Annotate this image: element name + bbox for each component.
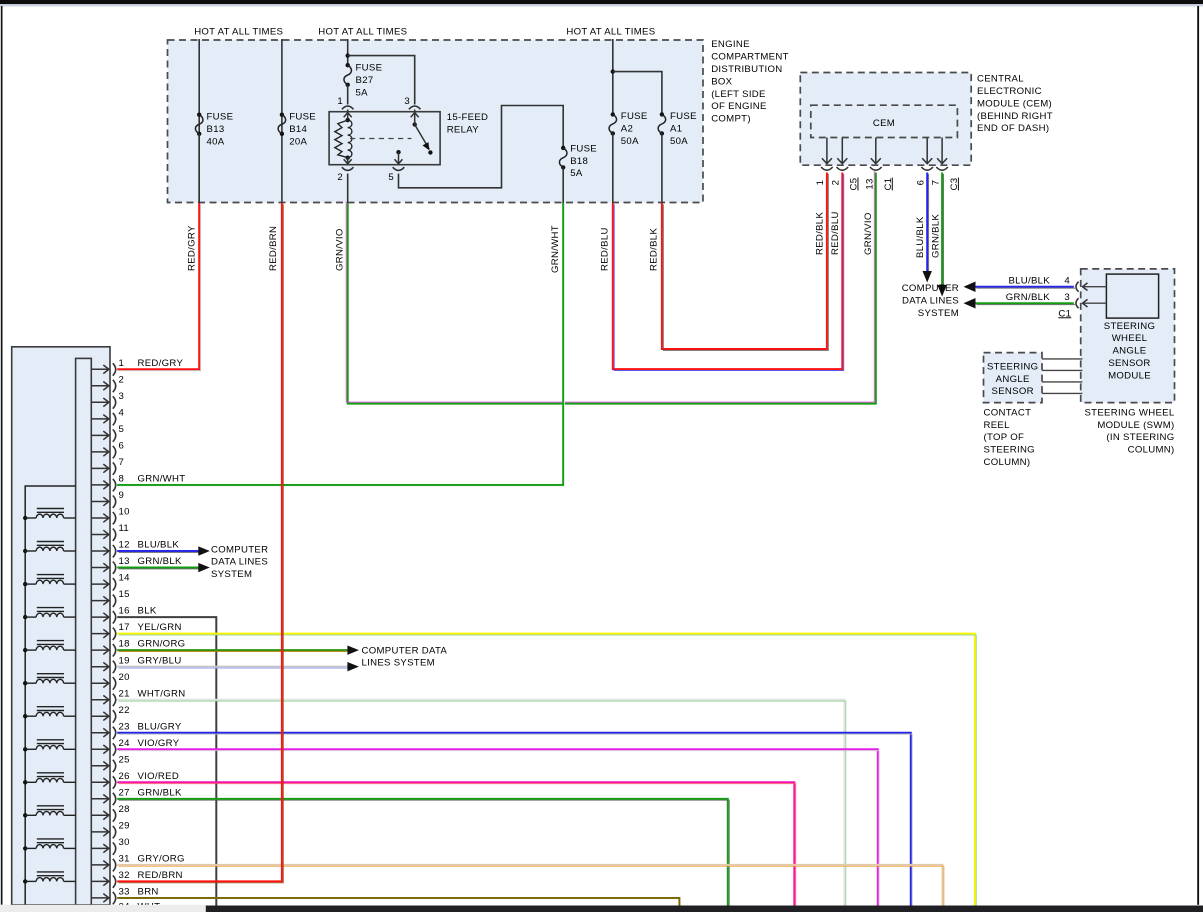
fuse A2 [611, 112, 615, 116]
wire BLU/GRY pin 23 [117, 733, 912, 908]
engine compartment distribution box caption [711, 39, 789, 124]
svg-text:15-FEED: 15-FEED [447, 112, 489, 123]
page top dither strip [0, 4, 1203, 6]
page right border [1197, 6, 1199, 905]
left connector pin 5 lead [91, 434, 109, 436]
suppression coil at pin 14 [23, 575, 76, 587]
left connector pin 22 lead [91, 715, 109, 717]
svg-text:GRN/BLK: GRN/BLK [138, 787, 183, 798]
fuse B27 label [356, 63, 383, 99]
svg-text:29: 29 [119, 821, 130, 832]
fuse B13 [197, 113, 201, 117]
svg-text:COLUMN): COLUMN) [1128, 445, 1175, 456]
svg-text:B14: B14 [289, 124, 307, 135]
SWM pin 4 connector [1076, 282, 1079, 292]
svg-text:(BEHIND RIGHT: (BEHIND RIGHT [977, 111, 1053, 122]
svg-text:FUSE: FUSE [570, 143, 597, 154]
wire GRN/BLK SWM pin 3 to data lines arrow [975, 303, 1075, 304]
svg-text:STEERING: STEERING [984, 445, 1035, 456]
relay pin 2 connector [342, 167, 354, 170]
CEM pin lead x=842.3 [841, 138, 843, 164]
svg-text:CONTACT: CONTACT [984, 407, 1032, 418]
svg-text:ANGLE: ANGLE [996, 374, 1030, 385]
wire BLU/BLK SWM pin 4 to data lines arrow [975, 287, 1075, 288]
left connector pin 31 lead [91, 864, 109, 866]
left connector pin 22 connector [113, 710, 116, 722]
wire VIO/RED pin 26 [117, 782, 796, 907]
svg-text:RED/GRY: RED/GRY [187, 225, 198, 271]
svg-text:GRN/VIO: GRN/VIO [863, 212, 874, 255]
svg-text:7: 7 [931, 180, 942, 186]
left connector pin 13 connector [113, 562, 116, 574]
svg-text:21: 21 [119, 688, 130, 699]
svg-text:COMPARTMENT: COMPARTMENT [711, 52, 789, 63]
svg-text:18: 18 [119, 639, 130, 650]
svg-text:17: 17 [119, 622, 130, 633]
svg-text:27: 27 [119, 787, 130, 798]
CEM pin connector x=842.3 [837, 167, 849, 170]
CEM pin connector x=927.2 [921, 167, 933, 170]
CEM pin connector x=942.1 [936, 167, 948, 170]
svg-text:6: 6 [915, 180, 926, 186]
left connector pin 18 connector [113, 644, 116, 656]
svg-text:11: 11 [119, 523, 130, 534]
suppression coil at pin 26 [23, 773, 76, 785]
suppression coil at pin 16 [23, 608, 76, 620]
svg-text:FUSE: FUSE [621, 111, 648, 122]
svg-text:DATA LINES: DATA LINES [902, 295, 959, 306]
svg-text:STEERING WHEEL: STEERING WHEEL [1084, 407, 1174, 418]
suppression coil at pin 12 [23, 542, 76, 554]
svg-text:30: 30 [119, 837, 130, 848]
fuse A1 [660, 112, 664, 116]
left connector pin 16 connector [113, 611, 116, 623]
left connector pin 17 connector [113, 628, 116, 640]
relay switch common node [413, 122, 417, 126]
svg-text:SENSOR: SENSOR [1108, 358, 1150, 369]
relay actuator dashed link [350, 138, 412, 140]
svg-text:2: 2 [830, 180, 841, 186]
svg-text:CEM: CEM [873, 118, 895, 129]
svg-text:SYSTEM: SYSTEM [918, 308, 959, 319]
svg-text:RED/BRN: RED/BRN [138, 870, 183, 881]
node label COMPUTER DATA LINES SYSTEM (pins 18/19) [362, 645, 448, 668]
wire GRN/VIO relay pin 2 to CEM pin 13 [346, 171, 876, 404]
svg-text:DATA LINES: DATA LINES [211, 557, 268, 568]
left connector pin 32 connector [113, 875, 116, 887]
suppression coil at pin 24 [23, 740, 76, 752]
svg-text:4: 4 [1064, 276, 1070, 287]
svg-text:COLUMN): COLUMN) [984, 457, 1031, 468]
left connector pin 10 connector [113, 512, 116, 524]
relay coil bottom node [346, 156, 350, 160]
wire GRN/BLK pin 27 [117, 799, 729, 908]
left connector pin 28 connector [113, 809, 116, 821]
svg-text:GRN/BLK: GRN/BLK [930, 213, 941, 258]
CEM inner box [811, 105, 958, 137]
left connector pin 25 connector [113, 760, 116, 772]
svg-text:RED/BLK: RED/BLK [814, 212, 825, 255]
wire GRN/WHT pin 8 to fuse B18 [117, 203, 564, 486]
svg-text:COMPUTER DATA: COMPUTER DATA [362, 645, 448, 656]
svg-text:RED/GRY: RED/GRY [138, 358, 184, 369]
svg-text:2: 2 [337, 172, 343, 183]
svg-text:MODULE (SWM): MODULE (SWM) [1097, 420, 1174, 431]
svg-text:B27: B27 [356, 75, 374, 86]
svg-text:LINES SYSTEM: LINES SYSTEM [362, 658, 435, 669]
svg-text:5A: 5A [570, 168, 583, 179]
left connector pin 25 lead [91, 765, 109, 767]
left connector pin 33 lead [91, 897, 109, 899]
wire GRY/BLU pin 19 to data lines arrow [117, 667, 349, 668]
svg-text:REEL: REEL [984, 420, 1011, 431]
svg-text:COMPUTER: COMPUTER [211, 544, 268, 555]
wire branch to relay pin 3 [348, 56, 415, 105]
left connector pin 30 lead [91, 847, 109, 849]
wire steering angle sensor line 4 [1042, 392, 1082, 394]
svg-text:14: 14 [119, 573, 131, 584]
svg-text:GRY/ORG: GRY/ORG [138, 854, 185, 865]
left connector pin 1 connector [113, 363, 116, 375]
fuse A2 label [621, 111, 648, 147]
left connector pin 15 connector [113, 595, 116, 607]
CEM pin lead x=875.8 [875, 138, 877, 164]
svg-text:BLU/BLK: BLU/BLK [1008, 276, 1050, 287]
steering wheel angle sensor module inner box [1106, 274, 1158, 318]
svg-text:3: 3 [119, 391, 125, 402]
svg-text:SYSTEM: SYSTEM [211, 569, 252, 580]
left connector outer box [12, 347, 110, 905]
SWM pin 3 connector [1076, 298, 1079, 308]
svg-text:1: 1 [337, 96, 343, 107]
wire hot feed to fuse B13 [198, 39, 200, 203]
steering wheel module (SWM) outer box [1081, 269, 1175, 403]
svg-text:26: 26 [119, 771, 130, 782]
svg-text:RED/BRN: RED/BRN [268, 226, 279, 271]
left connector pin 29 connector [113, 826, 116, 838]
svg-text:31: 31 [119, 854, 130, 865]
relay coil winding (bumps) [348, 120, 352, 158]
fuse B14 label [289, 112, 316, 148]
svg-text:28: 28 [119, 804, 130, 815]
wire hot feed to fuse A2 [612, 39, 614, 114]
svg-text:GRY/BLU: GRY/BLU [138, 655, 182, 666]
svg-text:C1: C1 [883, 178, 894, 191]
suppression coil at pin 32 [23, 872, 76, 884]
wire BLU/BLK CEM pin 6 to data lines arrow [927, 173, 928, 273]
CEM pin connector x=875.8 [870, 167, 882, 170]
left connector pin 11 lead [91, 534, 109, 536]
svg-text:BOX: BOX [711, 76, 732, 87]
relay coil top node [346, 118, 350, 122]
steering angle sensor box [984, 353, 1043, 403]
left connector pin 20 connector [113, 677, 116, 689]
svg-text:20A: 20A [289, 136, 307, 147]
steering wheel angle sensor module label [1104, 321, 1155, 382]
fuse B18 label [570, 143, 597, 179]
svg-text:FUSE: FUSE [356, 63, 383, 74]
svg-text:YEL/GRN: YEL/GRN [138, 622, 182, 633]
left connector pin 28 lead [91, 814, 109, 816]
left connector pin 2 lead [91, 385, 109, 387]
wire BLU/BLK pin 12 to data lines arrow [117, 551, 200, 552]
left connector pin 23 connector [113, 727, 116, 739]
svg-text:BLK: BLK [138, 606, 157, 617]
svg-text:DISTRIBUTION: DISTRIBUTION [711, 64, 782, 75]
svg-text:12: 12 [119, 540, 130, 551]
svg-text:ANGLE: ANGLE [1112, 346, 1146, 357]
left connector pin 12 connector [113, 545, 116, 557]
svg-text:VIO/GRY: VIO/GRY [138, 738, 180, 749]
wire relay pin 2 to box edge [347, 174, 349, 203]
SWM pin 3 lead [1083, 302, 1106, 304]
left connector internal bus [25, 486, 75, 905]
svg-text:GRN/ORG: GRN/ORG [138, 639, 186, 650]
svg-text:HOT AT ALL TIMES: HOT AT ALL TIMES [194, 26, 283, 37]
svg-text:9: 9 [119, 490, 125, 501]
svg-text:13: 13 [119, 556, 130, 567]
page left border [1, 6, 3, 905]
fuse B13 label [207, 112, 234, 148]
bottom black bar [206, 906, 1203, 912]
wire VIO/GRY pin 24 [117, 749, 879, 907]
svg-text:HOT AT ALL TIMES: HOT AT ALL TIMES [566, 26, 655, 37]
left connector pin 9 connector [113, 496, 116, 508]
svg-text:BLU/GRY: BLU/GRY [138, 721, 182, 732]
left connector pin 4 lead [91, 418, 109, 420]
wire hot feed to fuse B14 [281, 39, 283, 203]
engine compartment distribution box [168, 40, 704, 203]
wire hot feed to fuse B27 / relay [347, 39, 349, 65]
wire relay pin 5 to fuse B18 [399, 106, 564, 188]
svg-text:3: 3 [404, 96, 410, 107]
svg-text:FUSE: FUSE [289, 112, 316, 123]
svg-text:20: 20 [119, 672, 130, 683]
svg-text:50A: 50A [670, 136, 688, 147]
left connector pin 18 lead [91, 649, 109, 651]
svg-text:C5: C5 [849, 178, 860, 191]
svg-text:7: 7 [119, 457, 125, 468]
left connector pin 14 lead [91, 583, 109, 585]
svg-text:HOT AT ALL TIMES: HOT AT ALL TIMES [318, 26, 407, 37]
left connector pin 20 lead [91, 682, 109, 684]
svg-text:WHT/GRN: WHT/GRN [138, 688, 186, 699]
left connector pin 24 connector [113, 743, 116, 755]
central electronic module outer box [800, 73, 971, 166]
left connector pin 29 lead [91, 831, 109, 833]
svg-text:A1: A1 [670, 124, 682, 135]
relay pin 1 connector [342, 106, 354, 109]
svg-text:GRN/BLK: GRN/BLK [138, 556, 183, 567]
arrow GRN/ORG pin 18 to computer data lines system [347, 645, 359, 654]
wire BLK pin 16 [117, 617, 216, 906]
wire RED/BLK fuse A1 to CEM pin 1 [662, 173, 828, 351]
fuse A1 label [670, 111, 697, 147]
svg-text:2: 2 [119, 374, 125, 385]
left connector pin 16 lead [91, 616, 109, 618]
svg-text:SENSOR: SENSOR [992, 386, 1034, 397]
svg-text:(IN STEERING: (IN STEERING [1106, 432, 1174, 443]
left connector pin 30 connector [113, 842, 116, 854]
svg-text:33: 33 [119, 887, 130, 898]
arrow GRY/BLU pin 19 to computer data lines system [347, 662, 359, 671]
wire GRN/BLK CEM pin 7 to data lines arrow [942, 173, 943, 287]
left connector pin 3 connector [113, 396, 116, 408]
wire steering angle sensor line 3 [1042, 381, 1082, 383]
left connector pin 21 lead [91, 699, 109, 701]
wire fuse B27 to relay pin 1 [347, 85, 349, 105]
svg-text:4: 4 [119, 408, 125, 419]
svg-text:RED/BLU: RED/BLU [830, 211, 841, 255]
junction above fuse A2 [611, 69, 615, 73]
wire BRN pin 33 [117, 898, 679, 906]
svg-text:B13: B13 [207, 124, 225, 135]
left connector pin 1 lead [91, 368, 109, 370]
left connector pin 19 lead [91, 666, 109, 668]
left connector pin 9 lead [91, 501, 109, 503]
svg-text:GRN/WHT: GRN/WHT [550, 225, 561, 273]
arrow BLU/BLK pin 12 to computer data lines system [198, 546, 210, 555]
svg-text:24: 24 [119, 738, 131, 749]
wire RED/BLU fuse A2 to CEM pin 2 [613, 173, 844, 371]
svg-text:32: 32 [119, 870, 130, 881]
left connector pin 5 connector [113, 429, 116, 441]
relay switch contact node [428, 150, 432, 154]
relay coil resistive element (zigzag) [335, 120, 348, 158]
svg-text:5: 5 [388, 172, 394, 183]
relay pin 2 lead [347, 158, 349, 164]
left connector pin 33 connector [113, 892, 116, 904]
wire YEL/GRN pin 17 [117, 634, 976, 908]
node label COMPUTER DATA LINES SYSTEM (right) [902, 283, 959, 319]
svg-text:STEERING: STEERING [987, 361, 1038, 372]
svg-text:OF ENGINE: OF ENGINE [711, 101, 766, 112]
relay pin 3 connector [409, 106, 421, 109]
left connector pin 13 lead [91, 567, 109, 569]
svg-text:22: 22 [119, 705, 130, 716]
arrow BLU/BLK to computer data lines system [923, 271, 932, 283]
left connector pin 8 lead [91, 484, 109, 486]
svg-text:CENTRAL: CENTRAL [977, 74, 1024, 85]
left connector pin 11 connector [113, 529, 116, 541]
svg-text:BLU/BLK: BLU/BLK [915, 216, 926, 258]
svg-text:(TOP OF: (TOP OF [984, 432, 1025, 443]
CEM caption [977, 74, 1053, 135]
fuse B27 [346, 63, 350, 67]
left connector pin 17 lead [91, 633, 109, 635]
svg-text:10: 10 [119, 507, 130, 518]
wire fuse B13 to box edge [198, 134, 200, 203]
svg-text:BLU/BLK: BLU/BLK [138, 540, 180, 551]
left connector pin 7 connector [113, 462, 116, 474]
CEM pin lead x=826.9 [826, 138, 828, 164]
steering wheel module caption [1084, 407, 1174, 455]
svg-text:1: 1 [119, 358, 125, 369]
wire WHT/GRN pin 21 [117, 700, 846, 908]
left connector pin 4 connector [113, 413, 116, 425]
relay switch arm [415, 125, 430, 150]
left connector pin 15 lead [91, 600, 109, 602]
SWM pin 4 lead [1083, 286, 1106, 288]
svg-text:23: 23 [119, 721, 130, 732]
svg-text:19: 19 [119, 655, 130, 666]
svg-text:A2: A2 [621, 124, 633, 135]
left connector pin 8 connector [113, 479, 116, 491]
suppression coil at pin 22 [23, 707, 76, 719]
node label COMPUTER DATA LINES SYSTEM (pins 12/13) [211, 544, 268, 580]
steering angle sensor label [987, 361, 1038, 397]
fuse B14 [280, 113, 284, 117]
left connector pin 19 connector [113, 661, 116, 673]
wire GRN/BLK pin 13 to data lines arrow [117, 568, 200, 569]
arrow BLU/BLK (left) to computer data lines system [964, 282, 976, 293]
bottom-left gray strip [0, 905, 206, 912]
relay pin 1 lead [347, 110, 349, 121]
svg-text:6: 6 [119, 441, 125, 452]
svg-text:15: 15 [119, 589, 130, 600]
suppression coil at pin 18 [23, 641, 76, 653]
svg-text:1: 1 [815, 180, 826, 186]
wire fuse A1 to box edge [661, 134, 663, 204]
svg-text:END OF DASH): END OF DASH) [977, 123, 1049, 134]
wire RED/BRN pin 32 to fuse B14 [117, 203, 283, 883]
left connector pin 6 connector [113, 446, 116, 458]
svg-text:MODULE (CEM): MODULE (CEM) [977, 98, 1052, 109]
svg-text:MODULE: MODULE [1108, 370, 1151, 381]
relay 15-FEED box [329, 112, 440, 165]
relay pin 5 node [396, 150, 400, 154]
svg-text:FUSE: FUSE [207, 112, 234, 123]
svg-text:FUSE: FUSE [670, 111, 697, 122]
left connector pin 7 lead [91, 467, 109, 469]
svg-text:GRN/VIO: GRN/VIO [334, 228, 345, 271]
svg-text:3: 3 [1064, 292, 1070, 303]
svg-text:B18: B18 [570, 156, 588, 167]
svg-text:RELAY: RELAY [447, 124, 480, 135]
wire RED/GRY pin 1 to fuse B13 [117, 203, 200, 371]
suppression coil at pin 30 [23, 839, 76, 851]
left connector pin 27 connector [113, 793, 116, 805]
relay pin 5 lead [398, 152, 400, 164]
svg-text:8: 8 [119, 474, 125, 485]
svg-text:C3: C3 [949, 178, 960, 191]
svg-text:16: 16 [119, 606, 130, 617]
svg-text:VIO/RED: VIO/RED [138, 771, 180, 782]
left connector pin 10 lead [91, 517, 109, 519]
left connector pin 32 lead [91, 880, 109, 882]
suppression coil at pin 20 [23, 674, 76, 686]
junction above fuse B27 [346, 53, 350, 57]
svg-text:WHEEL: WHEEL [1112, 333, 1148, 344]
contact reel caption [984, 407, 1035, 468]
left connector pin bar [76, 358, 92, 905]
svg-text:40A: 40A [207, 136, 225, 147]
svg-text:ELECTRONIC: ELECTRONIC [977, 86, 1042, 97]
svg-text:5: 5 [119, 424, 125, 435]
svg-text:RED/BLK: RED/BLK [649, 228, 660, 271]
svg-text:25: 25 [119, 754, 130, 765]
svg-text:STEERING: STEERING [1104, 321, 1155, 332]
relay label 15-FEED RELAY [447, 112, 489, 135]
wire GRN/ORG pin 18 to data lines arrow [117, 650, 349, 651]
left connector pin 3 lead [91, 401, 109, 403]
CEM pin lead x=942.1 [941, 138, 943, 164]
left connector pin 24 lead [91, 748, 109, 750]
svg-text:GRN/WHT: GRN/WHT [138, 474, 186, 485]
CEM pin connector x=826.9 [821, 167, 833, 170]
left connector pin 2 connector [113, 380, 116, 392]
suppression coil at pin 10 [23, 509, 76, 521]
